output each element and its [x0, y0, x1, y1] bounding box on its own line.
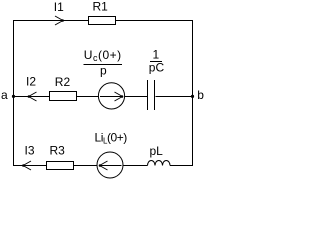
source U1 arrow: [100, 92, 123, 101]
svg-text:Uc(0+): Uc(0+): [84, 48, 122, 63]
svg-text:I2: I2: [26, 75, 36, 89]
svg-text:pC: pC: [149, 61, 165, 75]
svg-text:pL: pL: [150, 144, 164, 158]
wire top-left segment: [13, 20, 89, 22]
wire top-right segment: [116, 20, 194, 22]
capacitor right plate: [154, 80, 156, 110]
wire inductor-to-corner: [170, 165, 193, 167]
wire left vertical: [13, 20, 15, 166]
wire source-to-inductor: [123, 165, 148, 167]
label Uc(0+)/p fraction: [84, 48, 123, 78]
svg-text:p: p: [100, 64, 107, 78]
wire R3-to-source: [74, 165, 97, 167]
inductor pL: [148, 161, 171, 166]
resistor R3: [47, 162, 74, 170]
source U2 circle: [97, 152, 123, 178]
wire capacitor-to-b: [156, 96, 193, 98]
svg-text:I3: I3: [25, 144, 35, 158]
svg-text:R3: R3: [50, 144, 66, 158]
resistor R1: [89, 17, 116, 25]
node b: [191, 88, 204, 102]
current arrow I1: [55, 16, 64, 25]
wire R2-to-source: [77, 96, 99, 98]
wire source-to-capacitor: [125, 96, 148, 98]
svg-text:R2: R2: [55, 75, 71, 89]
svg-text:b: b: [197, 88, 204, 102]
current arrow I3: [22, 161, 31, 170]
svg-text:I1: I1: [54, 0, 64, 14]
wire middle a-to-R2: [14, 96, 50, 98]
wire bottom-left segment: [13, 165, 47, 167]
capacitor left plate: [147, 80, 149, 110]
svg-text:1: 1: [153, 48, 160, 62]
label 1/pC fraction: [149, 48, 165, 75]
wire right vertical: [192, 20, 194, 166]
node a: [1, 88, 15, 102]
svg-text:a: a: [1, 88, 8, 102]
source U1 circle: [98, 83, 124, 109]
current arrow I2: [28, 92, 37, 101]
svg-text:LiL(0+): LiL(0+): [95, 131, 128, 146]
source U2 arrow: [99, 161, 122, 170]
resistor R2: [50, 92, 77, 101]
svg-text:R1: R1: [93, 0, 109, 14]
